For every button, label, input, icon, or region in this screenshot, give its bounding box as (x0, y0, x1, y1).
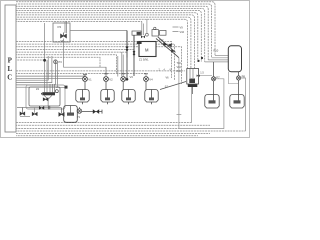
svg-text:P10: P10 (214, 49, 219, 53)
wire: right vessel bottom branch (228, 72, 238, 84)
pipe below cluster (17, 107, 61, 109)
valve under pipe (32, 112, 37, 115)
feed drops into cluster (50, 84, 55, 92)
svg-text:P1: P1 (77, 115, 81, 119)
svg-text:V10: V10 (180, 30, 185, 34)
box V9 (152, 30, 158, 36)
small valve near PLC bottom (20, 112, 25, 115)
svg-text:P7: P7 (216, 76, 220, 80)
wire: double drop into P2 valve (65, 22, 67, 34)
junction dots on verticals (126, 46, 128, 48)
small valve below manifold (43, 98, 48, 101)
svg-text:L: L (7, 65, 12, 73)
pump P8 (237, 72, 241, 95)
svg-text:V2: V2 (109, 77, 113, 81)
svg-text:P2: P2 (58, 25, 62, 29)
svg-text:V9: V9 (180, 25, 184, 29)
pump P1 (77, 107, 103, 113)
diagonal conveyor to right vessel (160, 82, 186, 90)
pump P3 circle (54, 60, 58, 64)
wire: riser drop x=44.6 with junction node (44, 23, 46, 92)
bundle 1: top control lines from PLC to right-side plant (16, 2, 215, 69)
svg-text:V4: V4 (149, 77, 153, 81)
svg-text:P12: P12 (159, 39, 164, 42)
valve V8 in P2 box (61, 34, 67, 38)
pipe: feed pipes to right top vessel (205, 56, 229, 62)
node junction (43, 59, 46, 62)
bin B4 (145, 90, 158, 105)
svg-text:Z10: Z10 (177, 70, 182, 73)
feed valve above mixer (141, 35, 145, 38)
svg-text:V3: V3 (130, 75, 134, 79)
bundle 2: second tier control lines (16, 42, 182, 85)
right bin B6 (230, 95, 244, 109)
right bin B5 (205, 95, 219, 109)
outer frame (1, 1, 250, 138)
wire: from P2 valve down and right to V2 (64, 39, 107, 77)
dark manifold inside cluster (42, 92, 55, 95)
svg-text:1.5: 1.5 (200, 72, 204, 75)
feed valve into tank (59, 113, 64, 117)
svg-text:P8: P8 (242, 75, 246, 79)
svg-text:M: M (145, 48, 149, 53)
valve V2 (104, 74, 109, 90)
svg-text:P: P (8, 57, 13, 65)
merge lines under manifold (44, 95, 52, 106)
left cluster inner box (29, 87, 60, 106)
valve V3 (121, 74, 126, 90)
wire: container bottom stub (192, 87, 194, 94)
junction dots on pipes (197, 60, 199, 62)
center cluster: feeder box above mixer (132, 31, 141, 35)
small circle under drop (146, 33, 149, 36)
bundle3 tick labels (159, 69, 172, 71)
pump P7 (212, 62, 216, 95)
black feeder on pipe (39, 106, 44, 110)
valve V1 (83, 75, 88, 90)
bin B2 (101, 90, 114, 105)
chute diagonal from mixer (156, 37, 179, 58)
small valve at container side (197, 75, 200, 77)
wire: chute discharge drop (178, 58, 180, 115)
black valve on chute (163, 42, 172, 48)
right tap with dark box (56, 87, 65, 89)
svg-text:V10: V10 (177, 66, 182, 69)
svg-text:Z1 S/N1: Z1 S/N1 (139, 57, 149, 61)
PLC label (7, 57, 12, 82)
PLC controller box (5, 5, 16, 132)
mixer box M (139, 42, 156, 57)
wire: double drop to V3 (118, 52, 123, 77)
wire: feeds from bundle1 into center cluster tops (142, 19, 147, 35)
svg-text:P3: P3 (59, 60, 63, 64)
arrow mark on chute (171, 49, 174, 52)
bin B1 (76, 90, 89, 105)
heavy verticals from mixer down to valve row (127, 58, 134, 80)
wire: heavy verticals into mixer area (127, 31, 134, 58)
valve V4 (144, 74, 149, 90)
left cluster: dosing unit outer enclosure (26, 85, 65, 109)
labels left of container (177, 62, 182, 73)
box right of V9 (160, 30, 166, 35)
bundle 4: bottom control lines (16, 123, 246, 136)
box P2 with valve (53, 23, 70, 42)
wire: from P2 box right to center verticals (70, 30, 127, 32)
svg-text:T10: T10 (177, 62, 182, 65)
right top vessel (228, 46, 241, 72)
bin B3 (122, 90, 135, 105)
right mid weigher container (187, 69, 199, 88)
bottom tank B8 (64, 106, 78, 123)
svg-text:C: C (7, 74, 12, 82)
label ticks V9/V10 (173, 27, 179, 32)
wire: container right tap (199, 75, 213, 77)
svg-text:V1: V1 (88, 77, 92, 81)
black valve on bottom pipe (93, 109, 99, 114)
bundle 3: third tier dotted control lines (16, 71, 185, 76)
bundle 3 solid lines turning up near left cluster (16, 56, 85, 87)
wire: risers from bottom bundle to right plant (177, 78, 246, 131)
